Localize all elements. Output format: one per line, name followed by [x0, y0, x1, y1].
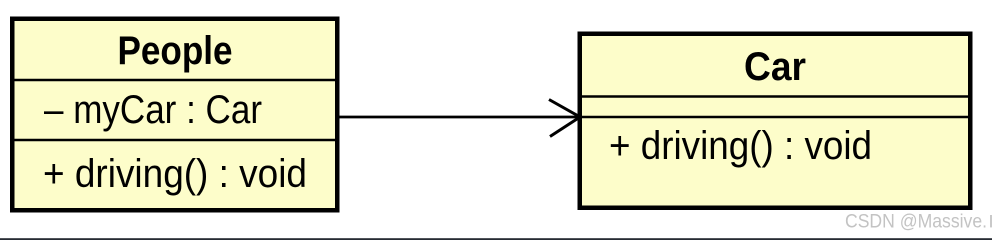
association open arrowhead at Car: [549, 100, 580, 137]
svg-text:CSDN @Massive.: CSDN @Massive.: [845, 210, 987, 232]
svg-text:– myCar : Car: – myCar : Car: [44, 88, 262, 132]
Car empty attribute section separator: [580, 116, 970, 119]
People attribute/method separator: [12, 139, 338, 142]
People title separator: [12, 79, 338, 82]
class box Car: [580, 34, 971, 208]
Car title separator: [580, 95, 970, 98]
watermark cut-off glyph at right edge: [990, 215, 992, 227]
class box People: [12, 19, 337, 211]
svg-text:+ driving() : void: + driving() : void: [609, 124, 872, 168]
svg-text:+ driving() : void: + driving() : void: [43, 152, 307, 196]
svg-text:People: People: [118, 29, 233, 73]
svg-text:Car: Car: [744, 45, 806, 89]
bottom window edge line: [0, 238, 992, 240]
association arrow shaft from People to Car: [339, 116, 579, 119]
